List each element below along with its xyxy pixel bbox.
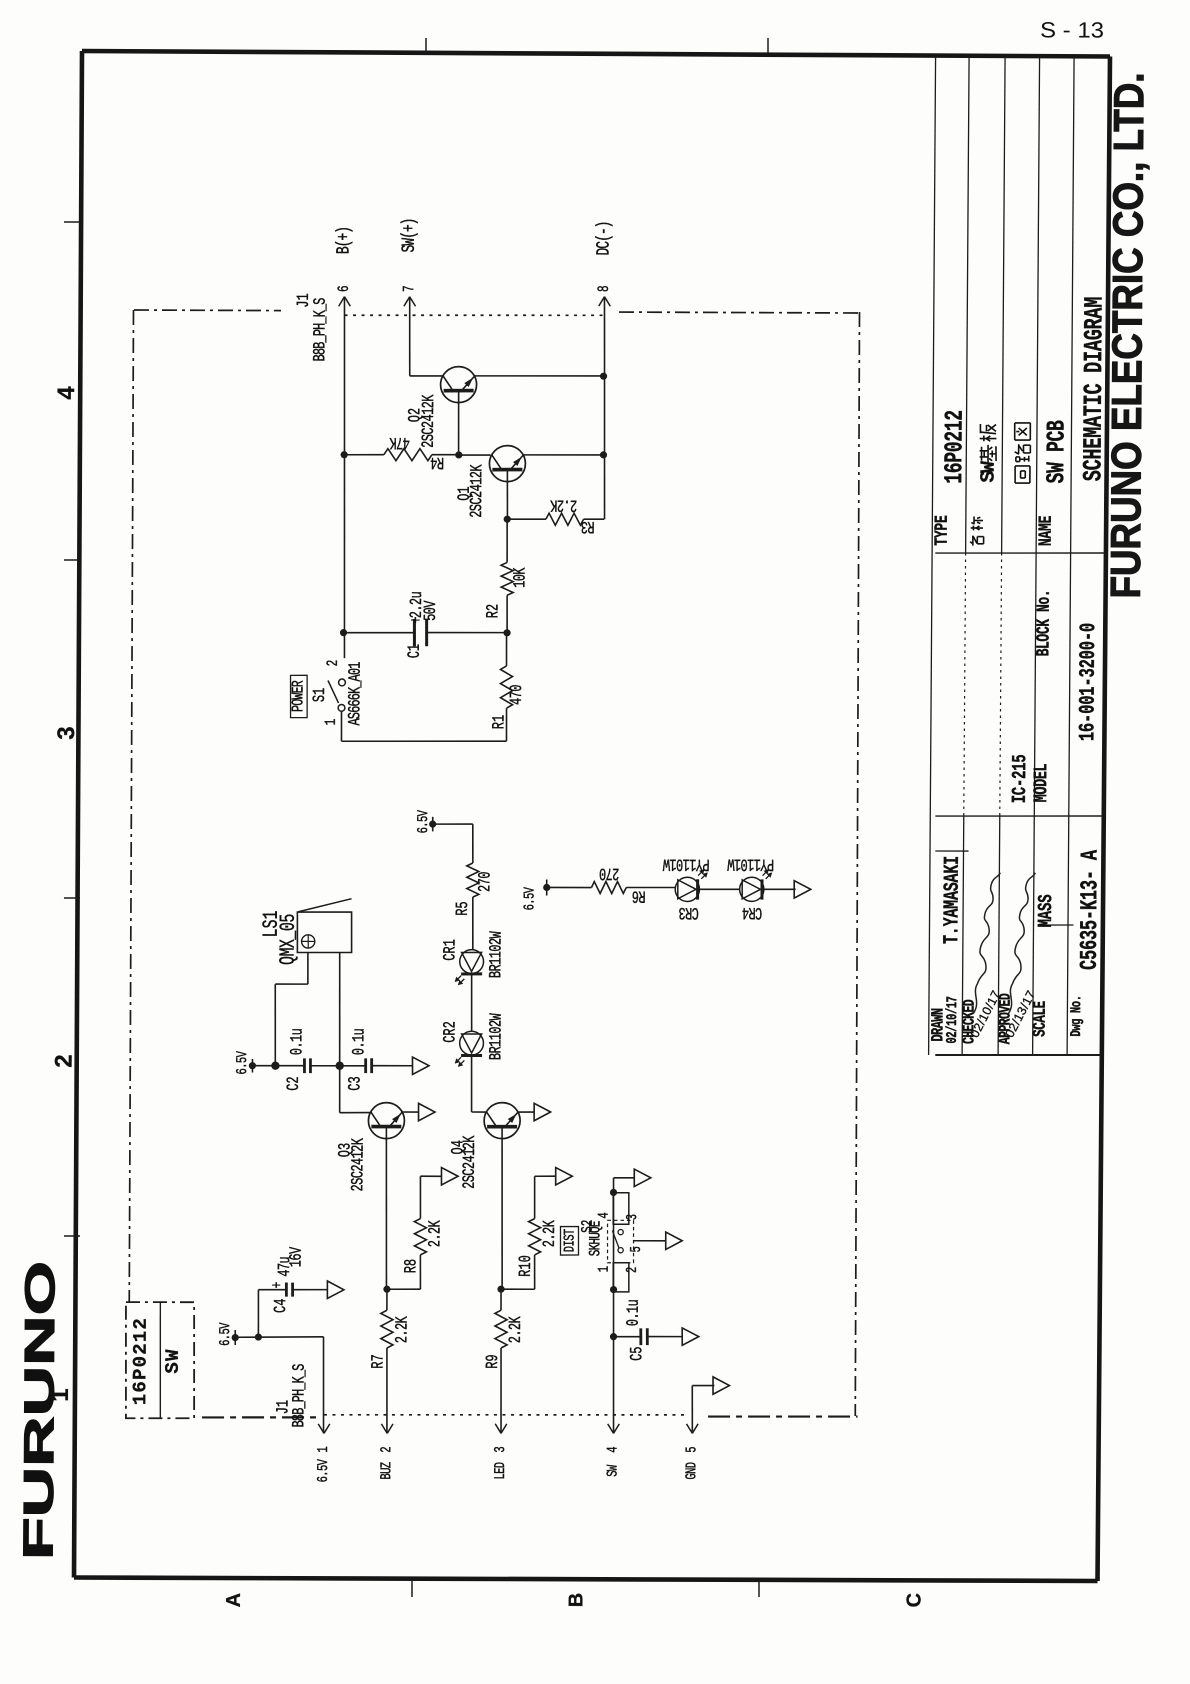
svg-text:S - 13: S - 13 bbox=[1040, 17, 1104, 42]
svg-text:QMX_05: QMX_05 bbox=[276, 914, 301, 965]
svg-text:6.5V: 6.5V bbox=[414, 810, 432, 834]
svg-text:SW PCB: SW PCB bbox=[1042, 420, 1071, 483]
svg-text:1: 1 bbox=[323, 719, 340, 726]
svg-text:R1: R1 bbox=[491, 715, 510, 730]
svg-text:CR2: CR2 bbox=[442, 1021, 461, 1043]
svg-text:DIST: DIST bbox=[561, 1229, 579, 1253]
svg-text:S1: S1 bbox=[311, 688, 330, 703]
svg-text:FURUNO: FURUNO bbox=[14, 1261, 63, 1560]
svg-text:R4: R4 bbox=[430, 452, 444, 471]
svg-text:3: 3 bbox=[491, 1446, 508, 1452]
svg-text:2SC2412K: 2SC2412K bbox=[420, 394, 439, 448]
svg-text:R9: R9 bbox=[484, 1354, 503, 1368]
svg-text:B: B bbox=[565, 1593, 587, 1608]
svg-text:PY1101W: PY1101W bbox=[663, 854, 710, 873]
svg-text:16V: 16V bbox=[288, 1247, 307, 1268]
svg-text:C5: C5 bbox=[628, 1346, 647, 1360]
svg-text:BR1102W: BR1102W bbox=[488, 931, 507, 978]
svg-text:C4: C4 bbox=[272, 1298, 291, 1313]
svg-text:6: 6 bbox=[336, 285, 353, 292]
svg-text:CR1: CR1 bbox=[442, 939, 461, 961]
svg-text:2: 2 bbox=[378, 1446, 395, 1452]
svg-text:1: 1 bbox=[314, 1446, 331, 1453]
svg-text:7: 7 bbox=[402, 285, 419, 292]
svg-text:TYPE: TYPE bbox=[932, 515, 953, 545]
svg-text:R7: R7 bbox=[370, 1354, 389, 1368]
svg-text:2SC2412K: 2SC2412K bbox=[350, 1138, 369, 1192]
svg-text:6.5V: 6.5V bbox=[314, 1459, 332, 1483]
svg-text:B(+): B(+) bbox=[333, 227, 354, 254]
svg-text:2SC2412K: 2SC2412K bbox=[468, 464, 487, 518]
svg-text:B8B_PH_K_S: B8B_PH_K_S bbox=[312, 297, 331, 361]
svg-text:2.2K: 2.2K bbox=[427, 1220, 446, 1247]
svg-text:3: 3 bbox=[53, 726, 80, 739]
svg-text:Dwg No.: Dwg No. bbox=[1067, 995, 1085, 1036]
svg-text:2: 2 bbox=[50, 1054, 77, 1067]
svg-text:50V: 50V bbox=[422, 600, 441, 621]
svg-text:A: A bbox=[223, 1593, 245, 1608]
svg-text:BLOCK No.: BLOCK No. bbox=[1033, 590, 1054, 657]
svg-text:MODEL: MODEL bbox=[1030, 763, 1052, 802]
svg-text:2: 2 bbox=[325, 660, 342, 667]
svg-text:C: C bbox=[903, 1593, 925, 1608]
svg-text:SW: SW bbox=[162, 1348, 184, 1373]
svg-text:4: 4 bbox=[53, 386, 80, 400]
svg-text:2.2K: 2.2K bbox=[507, 1316, 526, 1343]
svg-text:6.5V: 6.5V bbox=[233, 1051, 251, 1075]
svg-text:GND: GND bbox=[683, 1462, 700, 1480]
svg-text:LED: LED bbox=[491, 1462, 508, 1480]
svg-text:2.2K: 2.2K bbox=[541, 1220, 560, 1247]
svg-text:CR3: CR3 bbox=[679, 902, 699, 921]
svg-text:0.1u: 0.1u bbox=[625, 1300, 644, 1326]
svg-text:C5635-K13- A: C5635-K13- A bbox=[1077, 849, 1104, 970]
svg-text:2.2K: 2.2K bbox=[550, 495, 577, 514]
svg-text:SKHUQE: SKHUQE bbox=[588, 1221, 606, 1257]
svg-text:SW: SW bbox=[604, 1465, 621, 1477]
svg-text:B8B_PH_K_S: B8B_PH_K_S bbox=[291, 1363, 310, 1427]
svg-text:PY1101W: PY1101W bbox=[727, 854, 774, 873]
svg-text:270: 270 bbox=[600, 863, 620, 882]
svg-text:IC-215: IC-215 bbox=[1010, 755, 1032, 804]
svg-text:R5: R5 bbox=[454, 901, 473, 915]
svg-text:4: 4 bbox=[595, 1212, 612, 1219]
svg-text:FURUNO ELECTRIC CO., LTD.: FURUNO ELECTRIC CO., LTD. bbox=[1102, 72, 1153, 598]
svg-text:SW(+): SW(+) bbox=[399, 218, 420, 252]
svg-text:2.2K: 2.2K bbox=[394, 1316, 413, 1343]
svg-text:1: 1 bbox=[595, 1266, 612, 1273]
svg-text:02/10/17: 02/10/17 bbox=[943, 996, 961, 1043]
svg-text:2: 2 bbox=[623, 1267, 640, 1273]
svg-text:4: 4 bbox=[604, 1446, 621, 1453]
svg-text:SCALE: SCALE bbox=[1030, 1001, 1051, 1037]
svg-text:NAME: NAME bbox=[1036, 516, 1057, 546]
svg-text:C2: C2 bbox=[285, 1076, 304, 1090]
svg-text:R8: R8 bbox=[403, 1259, 422, 1273]
svg-text:R3: R3 bbox=[581, 516, 594, 535]
svg-text:16P0212: 16P0212 bbox=[129, 1317, 152, 1405]
svg-text:C3: C3 bbox=[347, 1076, 366, 1090]
svg-text:J1: J1 bbox=[295, 293, 314, 308]
svg-text:R6: R6 bbox=[632, 886, 645, 905]
svg-text:470: 470 bbox=[508, 685, 527, 705]
svg-text:0.1u: 0.1u bbox=[289, 1029, 308, 1055]
svg-text:BR1102W: BR1102W bbox=[488, 1013, 507, 1060]
svg-text:5: 5 bbox=[627, 1246, 644, 1252]
svg-text:C1: C1 bbox=[406, 644, 425, 659]
svg-text:T.YAMASAKI: T.YAMASAKI bbox=[940, 856, 965, 944]
svg-text:270: 270 bbox=[477, 872, 496, 892]
svg-text:DC(-): DC(-) bbox=[593, 221, 614, 255]
svg-text:16P0212: 16P0212 bbox=[940, 410, 969, 484]
svg-text:BUZ: BUZ bbox=[377, 1462, 394, 1480]
svg-text:2SC2412K: 2SC2412K bbox=[461, 1135, 480, 1189]
svg-text:0.1u: 0.1u bbox=[351, 1029, 370, 1055]
svg-text:47K: 47K bbox=[389, 432, 410, 451]
svg-text:5: 5 bbox=[683, 1446, 700, 1452]
svg-text:R2: R2 bbox=[485, 604, 504, 618]
svg-text:3: 3 bbox=[623, 1214, 640, 1220]
svg-text:10K: 10K bbox=[512, 567, 531, 588]
svg-text:6.5V: 6.5V bbox=[216, 1322, 234, 1346]
svg-text:CR4: CR4 bbox=[742, 902, 763, 921]
svg-text:+: + bbox=[270, 1282, 287, 1289]
svg-text:16-001-3200-0: 16-001-3200-0 bbox=[1075, 623, 1101, 741]
svg-text:POWER: POWER bbox=[290, 680, 309, 712]
svg-text:MASS: MASS bbox=[1036, 895, 1058, 928]
svg-text:R10: R10 bbox=[517, 1255, 536, 1277]
svg-text:8: 8 bbox=[596, 285, 613, 292]
svg-text:6.5V: 6.5V bbox=[521, 887, 539, 911]
svg-text:AS666K_A01: AS666K_A01 bbox=[347, 661, 366, 725]
svg-text:SW: SW bbox=[978, 461, 1001, 483]
